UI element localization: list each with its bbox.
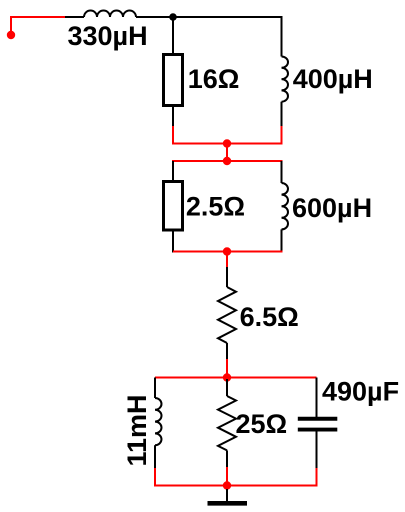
wire	[281, 229, 283, 252]
inductor L4 11mH	[155, 398, 162, 445]
wire	[226, 489, 228, 501]
svg-text:330µH: 330µH	[68, 21, 148, 51]
resistor R1 16Ω (box)	[164, 55, 183, 106]
capacitor C1 490µF	[298, 419, 338, 430]
svg-text:600µH: 600µH	[292, 193, 372, 223]
wire	[226, 144, 228, 162]
wire	[281, 126, 283, 145]
svg-text:2.5Ω: 2.5Ω	[186, 191, 245, 221]
wire	[172, 161, 174, 182]
svg-text:25Ω: 25Ω	[236, 409, 288, 439]
svg-text:400µH: 400µH	[293, 64, 373, 94]
wire	[281, 102, 283, 126]
wire	[172, 232, 174, 253]
wire	[136, 16, 283, 18]
wire	[226, 450, 228, 467]
svg-text:490µF: 490µF	[322, 377, 399, 407]
inductor L1 330µH	[84, 11, 136, 17]
wire	[154, 445, 156, 468]
wire	[154, 468, 156, 487]
wire	[316, 431, 318, 468]
svg-text:6.5Ω: 6.5Ω	[240, 302, 299, 332]
resistor R4 25Ω (zigzag)	[218, 396, 236, 450]
wire	[172, 126, 174, 144]
wire	[226, 359, 228, 378]
resistor R3 6.5Ω (zigzag)	[218, 287, 236, 343]
wire	[281, 161, 283, 183]
node junction	[223, 373, 231, 381]
svg-text:16Ω: 16Ω	[188, 64, 240, 94]
resistor R2 2.5Ω (box)	[164, 182, 183, 231]
svg-text:11mH: 11mH	[122, 394, 152, 466]
wire	[154, 378, 156, 399]
inductor L2 400µH	[282, 57, 289, 102]
ground	[208, 501, 248, 506]
node junction	[223, 247, 231, 255]
wire	[172, 17, 174, 53]
node junction	[223, 481, 231, 489]
wire	[316, 378, 318, 418]
node junction	[223, 157, 231, 165]
wire rail	[172, 143, 283, 145]
wire	[226, 343, 228, 359]
wire	[226, 467, 228, 486]
node junction	[223, 139, 231, 147]
wire rail	[172, 160, 283, 162]
wire	[281, 16, 283, 57]
wire rail	[155, 485, 317, 487]
wire rail	[173, 251, 283, 253]
wire	[226, 267, 228, 287]
wire	[65, 16, 84, 18]
inductor L3 600µH	[282, 183, 289, 229]
wire	[226, 379, 228, 396]
wire rail	[155, 377, 317, 379]
terminal node IN	[7, 31, 15, 39]
wire	[10, 17, 12, 35]
node junction (black)	[169, 13, 177, 21]
wire	[172, 107, 174, 126]
wire	[10, 16, 65, 18]
wire	[226, 252, 228, 268]
wire	[316, 468, 318, 487]
